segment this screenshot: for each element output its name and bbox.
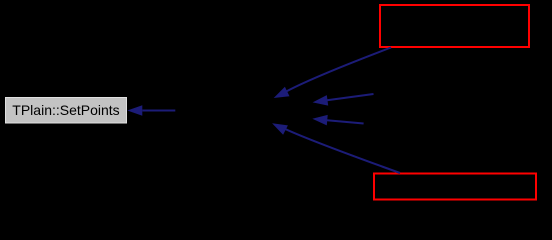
svg-text:TPlain::SetPoints: TPlain::SetPoints xyxy=(12,102,119,118)
